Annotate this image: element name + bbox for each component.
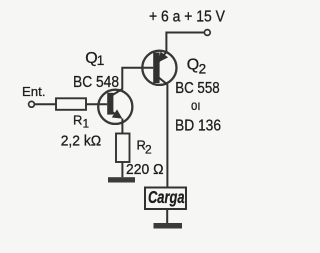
svg-text:BD 136: BD 136 xyxy=(175,117,221,134)
svg-text:Ent.: Ent. xyxy=(22,85,46,99)
transistor Q2 (PNP) xyxy=(142,51,176,85)
ground below R2 xyxy=(108,177,135,182)
svg-text:oı: oı xyxy=(191,97,201,113)
resistor R2 xyxy=(116,134,130,163)
terminal supply xyxy=(204,30,210,36)
svg-text:1: 1 xyxy=(97,53,105,68)
svg-text:220 Ω: 220 Ω xyxy=(126,161,164,178)
wire Q1 emitter to R2 xyxy=(121,119,123,134)
wire input terminal to R1 xyxy=(35,103,56,105)
wire load to ground xyxy=(166,209,168,223)
transistor Q1 (NPN) xyxy=(98,89,132,124)
wire Q1 collector to Q2 base xyxy=(122,68,153,90)
svg-text:+ 6 a + 15 V: + 6 a + 15 V xyxy=(149,8,226,25)
svg-text:Carga: Carga xyxy=(148,187,185,207)
svg-text:Q: Q xyxy=(187,56,199,73)
load box Carga xyxy=(145,188,186,210)
wire supply rail to Q2 emitter xyxy=(166,33,204,53)
wire R1 to Q1 base xyxy=(86,103,107,105)
svg-text:1: 1 xyxy=(83,119,89,131)
wire R2 to ground xyxy=(121,162,123,177)
svg-text:2: 2 xyxy=(145,143,152,157)
wire Q2 collector to load xyxy=(166,84,168,187)
svg-text:BC 548: BC 548 xyxy=(73,74,119,91)
terminal Ent. input xyxy=(29,101,35,107)
resistor R1 xyxy=(56,98,86,110)
svg-text:2: 2 xyxy=(199,62,207,77)
svg-text:R: R xyxy=(73,113,82,128)
svg-text:2,2 kΩ: 2,2 kΩ xyxy=(61,133,101,150)
ground below load xyxy=(154,223,183,229)
svg-text:BC 558: BC 558 xyxy=(175,80,220,97)
